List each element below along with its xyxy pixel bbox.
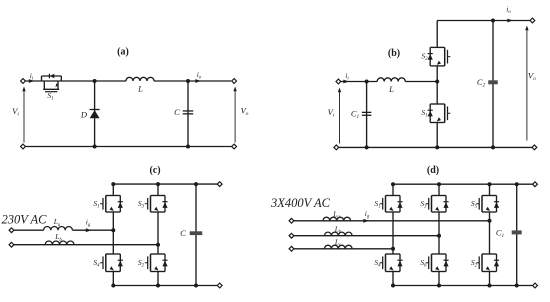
- transistor S3 (d): [426, 196, 449, 213]
- svg-text:S1: S1: [374, 199, 380, 210]
- terminal input-a+: [21, 79, 26, 84]
- node dtop-leg2: [437, 182, 441, 186]
- svg-text:S2: S2: [421, 51, 428, 62]
- transistor S2 (b): [428, 47, 451, 66]
- terminal output-a-: [232, 144, 237, 149]
- wire (a) top right: [154, 80, 231, 82]
- wire (c) phase1 left: [14, 229, 44, 231]
- inductor Lc (d): [325, 245, 353, 249]
- svg-text:D: D: [80, 110, 88, 120]
- terminal input-b+: [336, 79, 341, 84]
- wire (b) leg bottom: [436, 123, 438, 148]
- wire (d) top rail: [393, 183, 533, 185]
- terminal input-b-: [334, 145, 339, 150]
- node dbot-leg3: [488, 284, 492, 288]
- svg-text:230V AC: 230V AC: [1, 213, 47, 227]
- svg-text:(c): (c): [149, 165, 160, 176]
- transistor S1 (d): [380, 196, 403, 213]
- capacitor C1 branch (d): [516, 184, 518, 285]
- node dbot-leg1: [391, 284, 395, 288]
- svg-text:(b): (b): [388, 48, 400, 59]
- svg-text:L: L: [388, 84, 394, 94]
- inductor L (b): [377, 78, 405, 82]
- svg-text:S1: S1: [421, 108, 427, 119]
- node dtop-cap: [515, 182, 519, 186]
- node dbot-cap: [515, 284, 519, 288]
- transistor S1 (c): [100, 196, 123, 213]
- svg-text:L: L: [137, 84, 143, 94]
- wire (b) top rail: [437, 20, 530, 22]
- transistor S6 (d): [426, 254, 449, 272]
- svg-text:S3: S3: [138, 199, 145, 210]
- wire (d) phase-a: [294, 220, 490, 222]
- terminal output-b+: [530, 18, 535, 23]
- wire (d) leg2: [438, 184, 440, 195]
- node phase-b-leg2 (d): [437, 234, 441, 238]
- node phase-c-leg1 (d): [391, 247, 395, 251]
- svg-text:ig: ig: [86, 217, 91, 228]
- node rail-top-leg2 (c): [156, 182, 160, 186]
- wire (b) bottom rail: [339, 146, 532, 148]
- svg-text:Vi: Vi: [328, 107, 335, 119]
- capacitor C1 (d): [512, 230, 522, 234]
- svg-text:S4: S4: [93, 258, 100, 269]
- terminal grid-c-N: [9, 242, 14, 247]
- svg-text:S3: S3: [420, 199, 427, 210]
- voltage arrow V_i (a): [23, 90, 25, 143]
- transistor S4 (d): [380, 254, 403, 272]
- node A (a): [93, 79, 97, 83]
- node phase2-leg2 (c): [156, 243, 160, 247]
- wire (d) phase-b: [294, 235, 439, 237]
- capacitor C1 branch (b): [366, 82, 368, 148]
- svg-text:C2: C2: [477, 77, 486, 89]
- capacitor C1 (b): [362, 111, 372, 113]
- svg-text:S4: S4: [374, 258, 381, 269]
- svg-text:S1: S1: [47, 91, 53, 102]
- terminal grid-d-c: [289, 246, 294, 251]
- wire (b) to leg: [405, 81, 437, 83]
- wire (c) top rail: [113, 183, 217, 185]
- svg-text:S2: S2: [138, 258, 145, 269]
- wire (d) leg1: [392, 184, 394, 195]
- capacitor C (a): [183, 110, 194, 112]
- transistor S3 (c): [145, 196, 168, 213]
- wire (d) bottom rail: [393, 285, 533, 287]
- transistor S2 (d): [476, 254, 499, 272]
- capacitor C (c): [190, 231, 203, 235]
- terminal output-a+: [232, 79, 237, 84]
- node phase-a-leg3 (d): [488, 219, 492, 223]
- inductor L (a): [126, 77, 154, 81]
- terminal grid-d-b: [289, 233, 294, 238]
- svg-text:(a): (a): [117, 47, 129, 58]
- node rail-bot-cap (c): [194, 284, 198, 288]
- voltage arrow V_o (a): [234, 90, 236, 143]
- wire (b) leg top: [436, 21, 438, 48]
- svg-text:S2: S2: [471, 258, 478, 269]
- inductor La (c): [44, 226, 73, 230]
- svg-text:Vo: Vo: [528, 71, 536, 83]
- inductor Lb (c): [45, 241, 74, 245]
- wire (a) bottom rail: [25, 146, 232, 148]
- capacitor C2 branch (b): [492, 21, 494, 148]
- svg-text:C: C: [180, 228, 186, 238]
- diode D (a): [90, 109, 100, 111]
- node dtop-leg3: [488, 182, 492, 186]
- wire (d) phase-c: [294, 248, 393, 250]
- node dbot-leg2: [437, 284, 441, 288]
- node rail-bot-leg1 (c): [111, 284, 115, 288]
- node B (a): [186, 79, 190, 83]
- node A2 (a): [93, 145, 97, 149]
- node B2 (a): [186, 145, 190, 149]
- svg-text:io: io: [197, 70, 202, 81]
- terminal grid-d-a: [289, 218, 294, 223]
- capacitor C branch (c): [195, 184, 197, 285]
- wire (b) input: [341, 81, 377, 83]
- wire (d) leg3: [489, 184, 491, 195]
- node C1-bot (b): [365, 145, 369, 149]
- wire (b) leg middle: [436, 66, 438, 104]
- capacitor C branch wire (a): [187, 81, 189, 147]
- transistor S2 (c): [145, 254, 168, 272]
- terminal output-b-: [532, 145, 537, 150]
- diode D branch wire (a): [94, 81, 96, 147]
- svg-text:S5: S5: [471, 199, 478, 210]
- svg-text:Vo: Vo: [241, 106, 249, 118]
- node leg-mid (b): [435, 80, 439, 84]
- svg-text:ii: ii: [345, 71, 349, 82]
- svg-text:S6: S6: [420, 258, 427, 269]
- terminal input-a-: [21, 144, 26, 149]
- svg-text:io: io: [506, 5, 511, 16]
- wire (a) top left: [25, 80, 94, 82]
- inductor La (d): [323, 217, 351, 221]
- svg-text:3X400V AC: 3X400V AC: [270, 196, 331, 210]
- terminal output-d+: [533, 182, 538, 187]
- wire (c) phase2: [14, 244, 158, 246]
- terminal grid-c-L: [9, 228, 14, 233]
- node leg-bot (b): [435, 145, 439, 149]
- svg-text:C: C: [174, 107, 180, 117]
- terminal output-d-: [533, 283, 538, 288]
- voltage arrow V_o (b): [526, 29, 528, 141]
- node rail-top-leg1 (c): [111, 182, 115, 186]
- svg-text:S1: S1: [93, 199, 99, 210]
- wire (c) leg1: [112, 184, 114, 195]
- node C2-top (b): [491, 19, 495, 23]
- node C2-bot (b): [491, 145, 495, 149]
- switch S1 (a) antiparallel diode: [49, 74, 54, 79]
- transistor S4 (c): [100, 254, 123, 272]
- node rail-top-cap (c): [194, 182, 198, 186]
- svg-text:C1: C1: [351, 109, 360, 121]
- transistor S1 (b): [428, 104, 451, 123]
- svg-text:(d): (d): [427, 165, 439, 176]
- svg-text:C1: C1: [496, 228, 505, 240]
- capacitor C2 (b): [488, 80, 498, 84]
- terminal output-c-: [217, 283, 222, 288]
- wire (c) leg2: [157, 184, 159, 195]
- transistor S5 (d): [476, 196, 499, 213]
- switch S1 (a) body: [42, 76, 62, 92]
- wire (a) top mid: [95, 80, 126, 82]
- svg-text:ig: ig: [365, 209, 370, 220]
- terminal output-c+: [217, 182, 222, 187]
- svg-text:Vi: Vi: [12, 106, 19, 118]
- wire (c) phase1 right: [72, 229, 113, 231]
- voltage arrow V_i (b): [339, 91, 341, 144]
- node C1-top (b): [365, 80, 369, 84]
- wire (c) bottom rail: [113, 285, 217, 287]
- node dtop-leg1: [391, 182, 395, 186]
- inductor Lb (d): [325, 232, 353, 236]
- node phase1-leg1 (c): [111, 228, 115, 232]
- node rail-bot-leg2 (c): [156, 284, 160, 288]
